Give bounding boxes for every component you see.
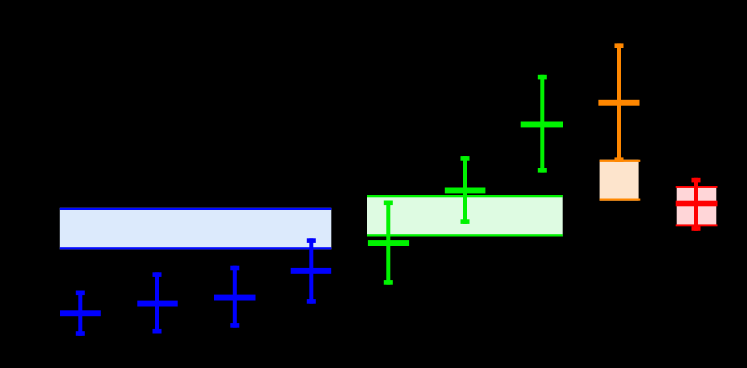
orange box (syst. uncertainty, point 8) [600, 160, 641, 201]
green data point 7 error-bar cross [521, 75, 563, 173]
blue data point 1 error-bar cross [60, 291, 101, 336]
red box (syst. uncertainty, point 9) [676, 186, 718, 226]
green data point 5 error-bar cross [368, 201, 409, 285]
red data point 9 error-bar cross [676, 178, 718, 231]
blue data point 4 error-bar cross [291, 238, 332, 303]
green band (average band, points 5-7) [367, 195, 563, 237]
blue band (average band, points 1-4) [60, 208, 332, 250]
blue data point 2 error-bar cross [137, 272, 177, 333]
green data point 6 error-bar cross [445, 156, 486, 224]
orange data point 8 error-bar cross [598, 43, 639, 162]
blue data point 3 error-bar cross [214, 266, 256, 328]
